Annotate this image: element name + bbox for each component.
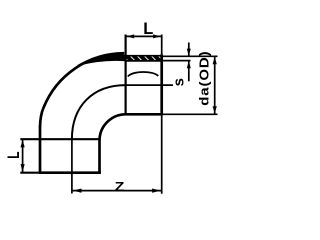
s dimension line upper part with down arrow bbox=[188, 43, 190, 56]
da(OD) dimension line bbox=[214, 56, 216, 114]
band bottom edge (bore top of right leg) bbox=[126, 60, 162, 62]
Z dimension line bbox=[72, 190, 162, 192]
Z right arrow bbox=[152, 189, 161, 193]
right leg centerline (horizontal axis) bbox=[126, 84, 173, 86]
crescent: sectioned wall sliver at top of bend (solid black) bbox=[78, 54, 126, 65]
svg-text:Z: Z bbox=[115, 180, 125, 194]
da(OD) bottom arrow bbox=[213, 106, 217, 113]
band top edge (outer surface of right leg) bbox=[126, 55, 162, 57]
s dimension line lower part with up arrow bbox=[188, 61, 190, 81]
top L left arrow bbox=[126, 34, 134, 38]
tangent line across down leg (bend start) + extension for left L dim bbox=[20, 138, 99, 140]
left L dimension line bbox=[22, 139, 24, 173]
s dimension extension line (bore top) bbox=[163, 60, 191, 62]
left L top arrow bbox=[21, 140, 25, 148]
svg-text:L: L bbox=[143, 20, 153, 38]
down leg right outer wall bbox=[98, 139, 101, 173]
left L bottom arrow bbox=[21, 164, 25, 172]
svg-text:L: L bbox=[5, 151, 23, 158]
top L dimension line bbox=[126, 35, 162, 37]
down leg left outer wall bbox=[39, 126, 42, 173]
s dimension extension line (outer surface) bbox=[163, 55, 193, 57]
right leg bottom outer wall bbox=[126, 113, 162, 116]
down leg centerline (vertical axis) bbox=[71, 139, 73, 194]
bore far-side shallow arc seen through right opening bbox=[128, 72, 158, 76]
da(OD) extension at bottom (bottom wall extended) bbox=[163, 113, 218, 115]
outer arc of elbow bend bbox=[40, 53, 124, 127]
down leg end face bbox=[39, 171, 101, 174]
right end face extension down for Z dim bbox=[161, 116, 163, 194]
Z left arrow bbox=[73, 189, 82, 193]
da(OD) top arrow bbox=[213, 57, 217, 64]
right end face extension up for top L dim bbox=[161, 35, 163, 55]
hatched wall band (right leg top wall, sectioned) bbox=[126, 56, 162, 61]
centerline arc of bend bbox=[72, 85, 126, 139]
tangent line V1 across right leg (bend start) bbox=[124, 35, 126, 116]
svg-text:s: s bbox=[170, 78, 187, 86]
da(OD) extension continuation at top bbox=[193, 55, 218, 57]
inner arc of elbow bend bbox=[100, 114, 126, 139]
top L right arrow bbox=[153, 34, 161, 38]
right end face bbox=[160, 54, 163, 115]
svg-text:da(OD): da(OD) bbox=[198, 50, 212, 105]
end face extension to left for L dim bbox=[20, 172, 39, 174]
